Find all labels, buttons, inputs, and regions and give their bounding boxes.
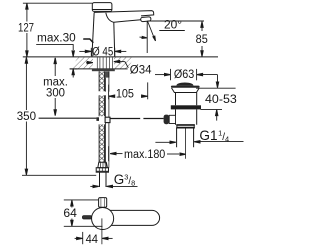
bottom view body circle: [92, 207, 114, 229]
svg-text:Ø63: Ø63: [174, 69, 194, 81]
dimension 40-53: [196, 75, 236, 121]
dimension 85: [201, 22, 203, 57]
braided supply hose upper segment: [99, 71, 104, 91]
faucet push-button cap: [92, 3, 112, 12]
svg-text:G3/8: G3/8: [114, 172, 135, 188]
svg-text:300: 300: [46, 87, 65, 99]
dimension max.180: [109, 146, 180, 161]
dimension 350: [22, 58, 96, 175]
dimension G1 1/4 thread arrows and leader: [155, 141, 243, 144]
hose rod lower segment: [106, 123, 109, 163]
dimension max.30 leader and arrows: [36, 44, 77, 77]
bottom view handle button: [99, 198, 107, 208]
svg-text:Ø34: Ø34: [130, 65, 152, 77]
drain flange band: [171, 86, 200, 88]
G3/8 thread end tube: [100, 172, 107, 187]
countertop bottom line: [70, 68, 128, 70]
dimension max.300: [54, 58, 56, 115]
svg-text:85: 85: [196, 34, 208, 46]
dimension Ø45: [79, 48, 126, 56]
faucet body right edge: [113, 22, 116, 56]
countertop top line: [23, 56, 218, 58]
threaded shank in hole: [97, 57, 112, 69]
hose rod threaded top: [105, 71, 109, 77]
20 degree angle lines: [140, 21, 205, 53]
svg-text:max.30: max.30: [37, 33, 76, 45]
dimension G3/8 arrows and leader: [90, 185, 137, 187]
drain flange neck: [172, 88, 200, 93]
bottom view lever: [82, 216, 91, 219]
dimension 44: [75, 232, 113, 244]
svg-text:G11/4: G11/4: [199, 128, 229, 144]
aerator at spout tip: [141, 17, 152, 22]
faucet body top / spout top line: [94, 11, 154, 16]
drain body upper: [176, 93, 197, 106]
dimension Ø63: [155, 69, 218, 80]
hose rod upper segment: [106, 71, 109, 91]
hose rod middle segment: [106, 95, 109, 117]
faucet body left edge: [92, 12, 94, 56]
pop-up rod right segments: [110, 118, 164, 120]
drain tailpipe centerline: [184, 128, 186, 159]
svg-text:105: 105: [116, 89, 134, 101]
pop-up rod socket: [169, 115, 175, 123]
hose crimp collar: [98, 162, 109, 167]
svg-text:20°: 20°: [164, 20, 182, 32]
svg-text:max.180: max.180: [124, 149, 165, 161]
hose hex nut G3/8: [96, 168, 108, 173]
bottom view spout: [102, 210, 160, 225]
temperature lever (side view): [84, 39, 93, 42]
countertop hatch left of hole: [71, 57, 93, 69]
drain body lower: [176, 109, 197, 124]
drain seal nut band: [171, 105, 201, 109]
drain tailpipe: [177, 128, 194, 147]
svg-text:127: 127: [18, 23, 34, 35]
dimension 64: [64, 200, 103, 226]
svg-text:350: 350: [17, 111, 36, 123]
dimension 105: [109, 82, 148, 99]
pop-up rod reference line left: [39, 117, 97, 119]
braided supply hose middle segment: [99, 95, 104, 116]
rod coupling block: [105, 117, 110, 122]
svg-text:44: 44: [86, 234, 99, 246]
drain plug dome: [176, 83, 193, 86]
svg-text:64: 64: [63, 208, 77, 220]
dimension 127: [23, 3, 92, 57]
rod nub on braid: [96, 117, 99, 121]
bottom view centerline: [101, 218, 103, 244]
svg-text:Ø 45: Ø 45: [92, 46, 113, 58]
dimension Ø34 leader: [86, 62, 128, 68]
braided supply hose lower segment: [99, 124, 104, 162]
pop-up rod knob at drain: [164, 115, 170, 125]
svg-text:40-53: 40-53: [205, 94, 237, 106]
spout underside: [106, 13, 141, 22]
drain step band: [176, 125, 195, 128]
mounting washer under deck: [92, 69, 115, 71]
countertop hatch right of hole: [114, 57, 135, 69]
